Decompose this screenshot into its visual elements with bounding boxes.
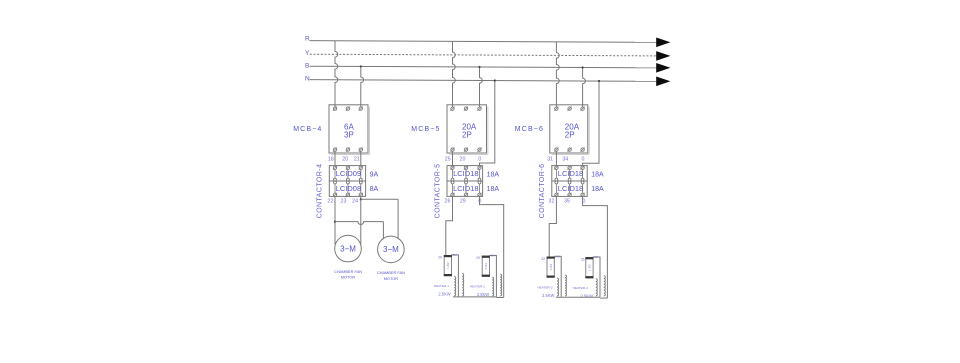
svg-text:18A: 18A: [591, 171, 604, 178]
svg-text:0: 0: [478, 157, 481, 163]
svg-text:LCID18: LCID18: [453, 184, 478, 193]
svg-text:HEATER-2: HEATER-2: [470, 285, 485, 289]
svg-text:9A: 9A: [370, 171, 379, 178]
svg-text:2.5KW: 2.5KW: [542, 293, 554, 298]
svg-text:MCB−6: MCB−6: [515, 126, 544, 133]
svg-text:LCID18: LCID18: [558, 169, 583, 178]
svg-text:CONTACTOR-5: CONTACTOR-5: [434, 164, 441, 219]
svg-text:18: 18: [328, 157, 334, 163]
svg-text:2P: 2P: [565, 131, 575, 140]
svg-text:34: 34: [562, 157, 568, 163]
svg-text:HEATER-1: HEATER-1: [434, 284, 449, 288]
svg-text:MCB−5: MCB−5: [411, 126, 440, 133]
svg-text:1-B2: 1-B2: [549, 264, 553, 271]
svg-text:31: 31: [547, 157, 553, 163]
svg-text:18A: 18A: [591, 186, 604, 193]
svg-text:1O2: 1O2: [555, 255, 560, 259]
svg-text:0: 0: [582, 157, 585, 163]
svg-text:25: 25: [445, 157, 451, 163]
svg-text:23: 23: [341, 198, 347, 204]
svg-text:22: 22: [328, 198, 334, 204]
svg-text:MCB−4: MCB−4: [293, 126, 322, 133]
svg-text:CHAMBER FAN: CHAMBER FAN: [334, 269, 362, 274]
svg-text:26: 26: [438, 256, 442, 260]
svg-text:R: R: [305, 36, 310, 43]
svg-text:20: 20: [342, 157, 348, 163]
svg-text:3M: 3M: [594, 255, 598, 259]
svg-text:Y: Y: [305, 50, 310, 57]
svg-text:18A: 18A: [487, 186, 500, 193]
svg-text:35: 35: [581, 258, 585, 262]
svg-text:2P: 2P: [462, 131, 472, 140]
svg-text:26: 26: [445, 198, 451, 204]
svg-text:21: 21: [354, 157, 360, 163]
svg-text:CHAMBER FAN: CHAMBER FAN: [377, 270, 405, 275]
svg-text:CONTACTOR-4: CONTACTOR-4: [317, 164, 324, 219]
svg-text:8A: 8A: [370, 186, 379, 193]
svg-text:29: 29: [460, 198, 466, 204]
svg-text:18A: 18A: [487, 171, 500, 178]
svg-text:3−M: 3−M: [340, 244, 356, 253]
svg-text:35: 35: [564, 198, 570, 204]
svg-text:1-B2: 1-B2: [484, 263, 488, 270]
svg-text:3M: 3M: [453, 253, 457, 257]
svg-text:2.5KW: 2.5KW: [438, 291, 450, 296]
svg-text:32: 32: [549, 198, 555, 204]
svg-text:MOTOR: MOTOR: [384, 276, 399, 281]
svg-text:24: 24: [352, 198, 358, 204]
svg-text:LCID18: LCID18: [558, 184, 583, 193]
svg-text:3P: 3P: [344, 131, 354, 140]
svg-text:3−M: 3−M: [383, 245, 399, 254]
svg-text:20: 20: [460, 157, 466, 163]
svg-text:HEATER-4: HEATER-4: [573, 286, 588, 290]
svg-text:LCID08: LCID08: [336, 184, 361, 193]
svg-text:2.5KW: 2.5KW: [477, 292, 489, 297]
svg-text:HEATER-3: HEATER-3: [537, 286, 552, 290]
svg-text:B: B: [305, 62, 309, 69]
svg-text:1-B2: 1-B2: [588, 264, 592, 271]
svg-text:29: 29: [476, 256, 480, 260]
svg-text:3M: 3M: [491, 254, 495, 258]
svg-text:CONTACTOR-6: CONTACTOR-6: [539, 164, 546, 219]
svg-text:LCID18: LCID18: [453, 169, 478, 178]
svg-text:N: N: [305, 76, 310, 83]
svg-text:MOTOR: MOTOR: [341, 275, 356, 280]
svg-text:1-B2: 1-B2: [446, 262, 450, 269]
svg-text:LCID09: LCID09: [336, 169, 361, 178]
svg-text:32: 32: [541, 257, 545, 261]
